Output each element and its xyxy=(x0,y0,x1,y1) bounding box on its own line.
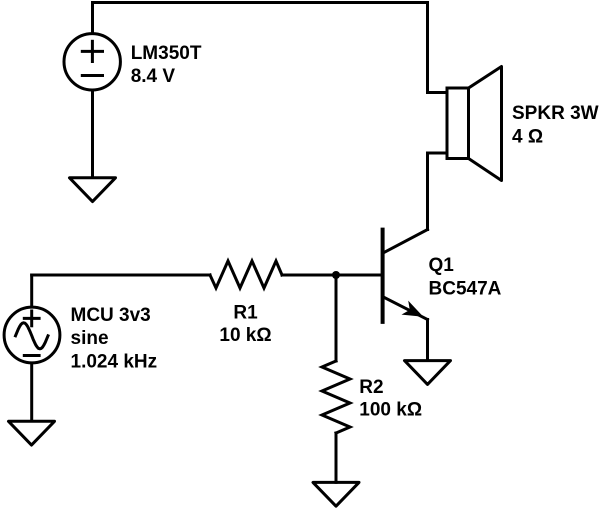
wire V1 to ground xyxy=(91,92,94,178)
svg-text:10 kΩ: 10 kΩ xyxy=(219,325,271,346)
wire speaker top lead xyxy=(428,91,448,94)
transistor Q1 base bar xyxy=(381,230,385,322)
svg-text:4 Ω: 4 Ω xyxy=(512,126,543,147)
label R1 10 k xyxy=(219,303,271,346)
svg-text:R2: R2 xyxy=(359,377,383,398)
wire R2 to ground xyxy=(335,433,338,482)
wire V2 to R1 xyxy=(32,274,210,277)
svg-text:sine: sine xyxy=(71,328,109,349)
sine source V2 xyxy=(4,307,60,363)
speaker SPKR body xyxy=(447,88,469,159)
ground below V2 xyxy=(9,421,55,445)
wire V2 bottom lead xyxy=(30,365,33,422)
label SPKR 3W xyxy=(512,103,599,147)
wire V2 top lead xyxy=(30,275,33,306)
ground below Q1 emitter xyxy=(405,361,451,385)
label Q1 BC547A xyxy=(429,255,502,299)
transistor Q1 collector lead xyxy=(384,230,428,253)
node junction dot xyxy=(332,271,340,279)
resistor R1 xyxy=(210,261,282,288)
label V2 MCU xyxy=(71,305,158,372)
svg-text:1.024 kHz: 1.024 kHz xyxy=(71,351,158,372)
transistor Q1 emitter arrow xyxy=(402,301,424,317)
V2 sine symbol xyxy=(16,323,49,349)
svg-text:Q1: Q1 xyxy=(429,255,455,276)
voltage source V1 xyxy=(64,34,120,90)
V1 plus sign xyxy=(82,41,102,61)
wire emitter to ground xyxy=(426,320,429,361)
svg-text:MCU 3v3: MCU 3v3 xyxy=(71,305,151,326)
wire R1 to Q1 base xyxy=(282,274,382,277)
transistor Q1 emitter lead xyxy=(384,297,428,319)
V1 minus sign xyxy=(82,74,102,77)
svg-text:R1: R1 xyxy=(233,303,258,324)
V2 minus sign xyxy=(24,354,39,357)
resistor R2 xyxy=(322,361,350,433)
wire node to R2 xyxy=(335,275,338,361)
svg-text:BC547A: BC547A xyxy=(429,279,502,300)
wire speaker bottom lead xyxy=(428,153,448,230)
wire top rail xyxy=(93,3,428,93)
ground below V1 xyxy=(70,178,116,202)
ground below R2 xyxy=(313,482,359,506)
label R2 100 k xyxy=(359,377,422,421)
label V1 LM350T xyxy=(131,43,202,87)
svg-text:LM350T: LM350T xyxy=(131,43,202,64)
svg-text:8.4 V: 8.4 V xyxy=(131,66,176,87)
svg-text:SPKR 3W: SPKR 3W xyxy=(512,103,599,124)
speaker SPKR horn xyxy=(469,67,502,181)
V2 plus sign xyxy=(24,311,39,326)
svg-text:100 kΩ: 100 kΩ xyxy=(359,400,422,421)
